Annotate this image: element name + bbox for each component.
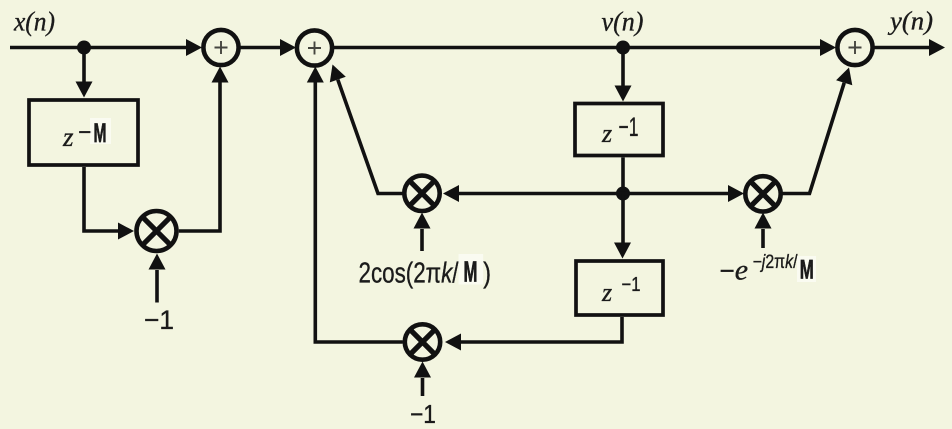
wire node v to delay box D1 (621, 48, 625, 87)
wire node2 to delay box D2 (621, 194, 625, 244)
wire adder A2 to adder A3 main line (333, 46, 820, 50)
wire node to delay M box (82, 48, 86, 83)
arrowhead -e into multiplier B4 (755, 213, 772, 229)
arrowhead into multiplier B1 (118, 223, 134, 240)
multiplier B3 cross (410, 329, 435, 354)
svg-text:M: M (463, 255, 477, 288)
wire adder A3 output (874, 46, 931, 50)
wire delay M box to multiplier B1 (84, 167, 119, 231)
wire multiplier B1 to adder A1 (179, 83, 220, 232)
arrowhead up into adder A2 (307, 67, 324, 83)
arrowhead into multiplier B2 (443, 185, 459, 202)
svg-text:−1: −1 (410, 399, 436, 429)
svg-text:−e: −e (720, 254, 749, 287)
adder A2 plus (308, 42, 321, 55)
node2 junction (616, 187, 630, 201)
svg-text:v(n): v(n) (602, 7, 644, 37)
arrowhead output (929, 39, 945, 56)
arrowhead into multiplier B4 (728, 185, 744, 202)
adder A3 plus (849, 41, 862, 54)
delay box D1 z^-1 (575, 104, 663, 156)
adder A1 circle (203, 30, 238, 65)
arrowhead into adder A3 (820, 39, 836, 56)
multiplier B2 cross (409, 181, 434, 206)
multiplier B1 cross (142, 217, 170, 245)
svg-text:−j2πk/: −j2πk/ (753, 252, 799, 273)
wire node2 to multiplier B4 (623, 192, 729, 196)
adder A3 circle (837, 30, 872, 65)
multiplier B3 circle (405, 324, 440, 359)
arrowhead -1 into multiplier B1 (149, 254, 166, 270)
svg-text:x(n): x(n) (13, 7, 55, 37)
svg-text:−1: −1 (622, 274, 641, 296)
arrowhead 2cos into multiplier B2 (414, 213, 431, 229)
multiplier B1 circle (137, 211, 177, 251)
svg-text:M: M (800, 255, 814, 285)
arrowhead -1 into multiplier B3 (414, 362, 431, 378)
node input branch (77, 41, 91, 55)
svg-text:z: z (601, 119, 612, 148)
delay box z^-M (29, 100, 138, 165)
arrowhead diagonal into adder A3 (836, 68, 852, 86)
wire delay box D1 to node2 (621, 158, 625, 194)
wire input line (10, 46, 187, 50)
multiplier B2 circle (404, 176, 439, 211)
wire multiplier B2 to adder A2 diagonal (338, 80, 403, 194)
arrowhead into adder A1 (186, 39, 202, 56)
svg-text:y(n): y(n) (887, 7, 933, 36)
wire -1 to multiplier B1 (155, 270, 159, 303)
svg-text:M: M (94, 118, 107, 148)
wire 2cos label to multiplier B2 (420, 229, 424, 251)
adder A1 plus (215, 41, 228, 54)
wire delay box D2 to multiplier B3 (461, 317, 622, 342)
svg-text:z: z (62, 122, 74, 152)
delay box D2 z^-1 (576, 261, 663, 315)
wire adder A1 to adder A2 (240, 46, 281, 50)
arrowhead into delay box D2 (614, 243, 631, 259)
wire multiplier B3 to adder A2 (315, 83, 402, 343)
arrowhead diagonal into adder A2 (330, 65, 346, 83)
node v(n) (616, 41, 630, 55)
wire -e label to multiplier B4 (761, 229, 765, 248)
label 2cos(2pik/M) (359, 254, 492, 289)
arrowhead into delay box D1 (615, 86, 632, 102)
multiplier B4 cross (750, 181, 775, 206)
arrowhead into delay M box (76, 82, 93, 98)
svg-text:−1: −1 (144, 305, 174, 335)
svg-text:−: − (78, 119, 92, 146)
adder A2 circle (297, 30, 332, 65)
wire node2 to multiplier B2 (459, 192, 623, 196)
arrowhead into multiplier B3 (445, 334, 461, 351)
wire multiplier B4 to adder A3 diagonal (782, 83, 844, 194)
arrowhead into adder A1 bottom (212, 67, 229, 83)
svg-text:): ) (483, 256, 491, 289)
wire -1 to multiplier B3 (421, 378, 425, 396)
arrowhead into adder A2 (280, 39, 296, 56)
multiplier B4 circle (745, 176, 780, 211)
svg-text:2cos(2πk/: 2cos(2πk/ (359, 256, 460, 289)
svg-text:z: z (601, 278, 612, 307)
svg-text:−1: −1 (619, 112, 639, 142)
